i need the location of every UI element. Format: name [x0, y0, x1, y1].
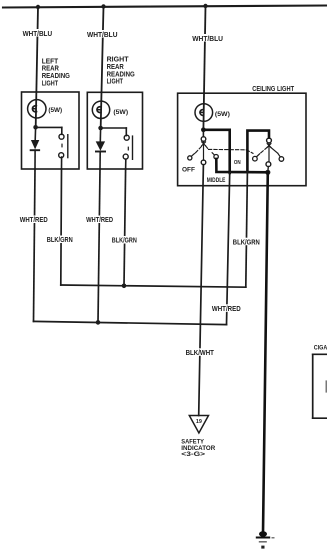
- svg-text:(5W): (5W): [113, 109, 128, 116]
- svg-text:CEILING LIGHT: CEILING LIGHT: [252, 84, 294, 93]
- svg-text:CIGAR: CIGAR: [314, 345, 327, 352]
- svg-text:BLK/GRN: BLK/GRN: [233, 237, 260, 246]
- svg-text:OFF: OFF: [182, 167, 195, 174]
- svg-text:WHT/RED: WHT/RED: [86, 215, 114, 224]
- svg-text:WHT/BLU: WHT/BLU: [192, 34, 223, 43]
- svg-text:ON: ON: [234, 160, 241, 166]
- svg-text:WHT/BLU: WHT/BLU: [87, 30, 118, 39]
- svg-text:19: 19: [196, 419, 202, 425]
- svg-text:WHT/RED: WHT/RED: [20, 215, 49, 224]
- svg-text:(5W): (5W): [48, 107, 62, 114]
- svg-text:BLK/GRN: BLK/GRN: [112, 236, 137, 245]
- svg-text:BLK/WHT: BLK/WHT: [186, 348, 215, 357]
- svg-text:WHT/RED: WHT/RED: [212, 304, 241, 313]
- svg-text:LIGHT: LIGHT: [42, 79, 59, 88]
- svg-text:<3-G>: <3-G>: [181, 451, 205, 458]
- svg-text:BLK/GRN: BLK/GRN: [47, 235, 73, 244]
- svg-text:LIGHT: LIGHT: [107, 77, 124, 86]
- svg-text:(5W): (5W): [215, 111, 230, 118]
- svg-text:MIDDLE: MIDDLE: [207, 178, 226, 184]
- svg-text:WHT/BLU: WHT/BLU: [23, 29, 52, 38]
